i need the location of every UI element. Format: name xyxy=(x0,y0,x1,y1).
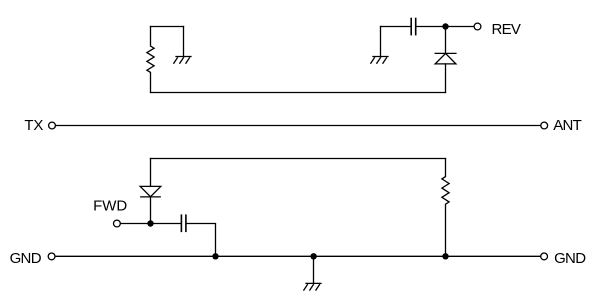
svg-text:REV: REV xyxy=(492,21,521,38)
terminal REV xyxy=(474,23,481,30)
node junction C2-GND xyxy=(212,253,218,259)
wire diode D2 top lead xyxy=(150,159,152,187)
svg-text:FWD: FWD xyxy=(93,198,127,215)
terminal GND left xyxy=(48,253,55,260)
svg-text:GND: GND xyxy=(10,250,42,267)
wire GND line xyxy=(56,255,540,257)
wire bottom pickup line xyxy=(151,158,446,160)
wire ground stub top-left xyxy=(183,27,185,57)
ground xyxy=(371,57,388,64)
wire top-left link xyxy=(151,26,184,28)
resistor R2 xyxy=(442,159,449,257)
terminal TX xyxy=(49,122,56,129)
terminal GND right xyxy=(541,253,548,260)
ground xyxy=(304,283,321,290)
svg-text:TX: TX xyxy=(24,117,43,134)
capacitor C2 xyxy=(181,215,186,231)
wire TX-ANT through line xyxy=(57,125,541,127)
diode D1 xyxy=(435,53,456,64)
wire ground stub REV section xyxy=(380,27,382,57)
wire diode D1 top lead xyxy=(445,27,447,54)
svg-text:GND: GND xyxy=(554,250,586,267)
svg-text:ANT: ANT xyxy=(553,117,581,134)
resistor R1 xyxy=(147,27,154,93)
node junction ground stub xyxy=(310,253,316,259)
capacitor C1 xyxy=(411,19,416,35)
node junction REV xyxy=(442,23,448,29)
wire top pickup line xyxy=(151,92,446,94)
wire REV left segment xyxy=(381,26,411,28)
ground xyxy=(174,57,191,64)
wire diode D2 bottom lead xyxy=(150,197,152,224)
wire ground stub bottom xyxy=(313,256,315,283)
node junction R2-GND xyxy=(442,253,448,259)
terminal ANT xyxy=(541,122,548,129)
node junction FWD xyxy=(147,220,153,226)
wire REV right segment xyxy=(417,26,475,28)
wire capacitor C2 to ground line xyxy=(187,224,216,257)
diode D2 xyxy=(140,186,161,197)
wire diode D1 bottom lead xyxy=(445,64,447,93)
wire FWD to capacitor xyxy=(121,223,181,225)
terminal FWD xyxy=(114,220,121,227)
